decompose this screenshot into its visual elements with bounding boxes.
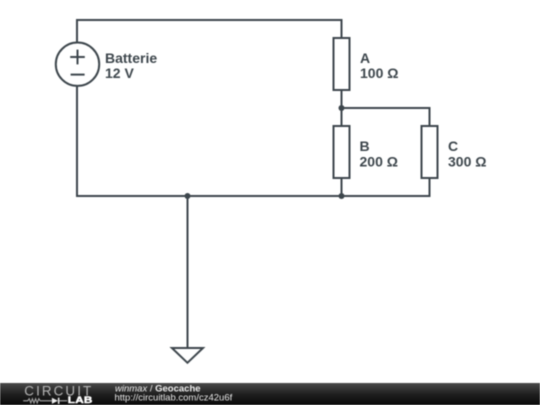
resistor A label 100 Ω — [360, 50, 398, 81]
wire resistor A bottom to resistor B top — [341, 90, 343, 126]
footer bar — [0, 383, 540, 405]
resistor C label 300 Ω — [448, 138, 486, 169]
svg-text:100 Ω: 100 Ω — [360, 65, 398, 81]
node junction top (A-B-C) — [339, 105, 345, 111]
resistor B label 200 Ω — [360, 138, 398, 169]
svg-text:A: A — [360, 50, 370, 66]
svg-text:Batterie: Batterie — [105, 50, 157, 66]
battery label Batterie 12 V — [105, 50, 157, 81]
logo resistor zigzag — [23, 399, 52, 403]
svg-text:300 Ω: 300 Ω — [448, 153, 486, 169]
logo diode — [52, 398, 58, 404]
node junction bottom (B-C net) — [339, 193, 345, 199]
wire resistor C bottom to bottom net — [342, 178, 430, 196]
svg-text:LAB: LAB — [68, 396, 93, 405]
svg-text:C: C — [448, 138, 458, 154]
resistor C — [422, 126, 438, 178]
svg-text:B: B — [360, 138, 370, 154]
svg-text:12 V: 12 V — [105, 65, 134, 81]
battery V1 (Batterie) — [56, 42, 99, 85]
svg-text:200 Ω: 200 Ω — [360, 153, 398, 169]
resistor A — [334, 38, 350, 90]
wire resistor B bottom to bottom net — [341, 178, 343, 196]
wire battery+ to resistor A top — [77, 20, 342, 43]
wire bottom net to battery- — [77, 86, 342, 196]
resistor B — [334, 126, 350, 178]
wire ground stem — [187, 196, 189, 347]
ground symbol — [172, 348, 203, 363]
node junction ground tee — [185, 193, 191, 199]
svg-text:http://circuitlab.com/cz42u6f: http://circuitlab.com/cz42u6f — [115, 393, 233, 404]
wire node to resistor C top — [342, 108, 430, 126]
